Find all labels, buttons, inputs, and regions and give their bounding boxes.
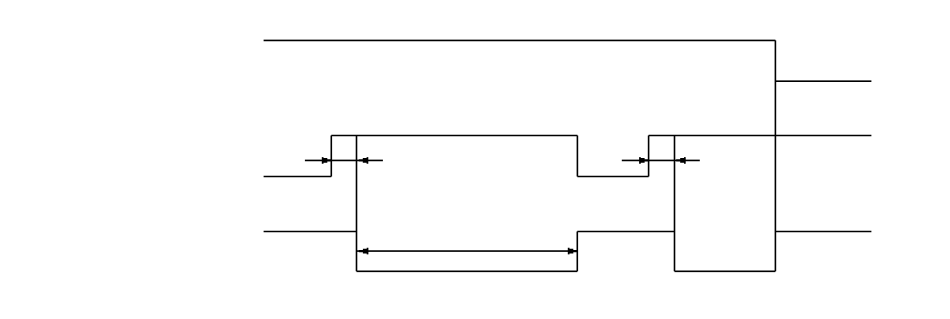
- wire: signal 3 initial high level: [264, 231, 357, 233]
- wire: signal 1 high level: [264, 39, 776, 41]
- wire: signal 2 falling edge: [576, 136, 578, 177]
- wire: signal 2 final high level: [649, 135, 872, 137]
- arrowhead: t2 right arrow pointing left at second extension line: [676, 157, 686, 164]
- dimension line: delay t2 between signal 2 second rising edge and signal 3 second falling edge: [622, 159, 700, 161]
- wire: signal 3 second low bottom: [675, 270, 776, 272]
- wire: signal 1 low level after falling edge: [775, 80, 871, 82]
- wire: signal 2 mid low level: [577, 176, 648, 178]
- wire: signal 3 low pulse bottom: [357, 270, 578, 272]
- arrowhead: pulse width left arrow pointing left at signal 3 falling edge: [359, 248, 369, 255]
- wire: signal 3 second falling edge with extension line up to signal 2 high level: [674, 136, 676, 272]
- wire: signal 3 second high level: [577, 231, 674, 233]
- wire: shared vertical edge (signal 1 falling edge / signal 3 rising edge): [774, 40, 776, 271]
- wire: signal 3 rising edge: [576, 232, 578, 272]
- arrowhead: t1 left arrow pointing right at signal 2 rising edge: [322, 157, 332, 164]
- dimension line: signal 3 low pulse width: [357, 250, 578, 252]
- wire: signal 3 falling edge with extension line up to signal 2 high level: [356, 136, 358, 272]
- arrowhead: t2 left arrow pointing right at signal 2 second rising edge: [639, 157, 649, 164]
- arrowhead: t1 right arrow pointing left at extension line: [359, 157, 369, 164]
- wire: signal 2 rising edge: [330, 136, 332, 177]
- arrowhead: pulse width right arrow pointing right at signal 3 rising edge: [568, 248, 578, 255]
- dimension line: delay t1 between signal 2 rising edge and signal 3 falling edge: [305, 159, 383, 161]
- wire: signal 2 initial low level: [264, 176, 332, 178]
- wire: signal 2 high pulse top: [331, 135, 577, 137]
- wire: signal 3 final high level: [775, 231, 871, 233]
- wire: signal 2 second rising edge: [648, 136, 650, 177]
